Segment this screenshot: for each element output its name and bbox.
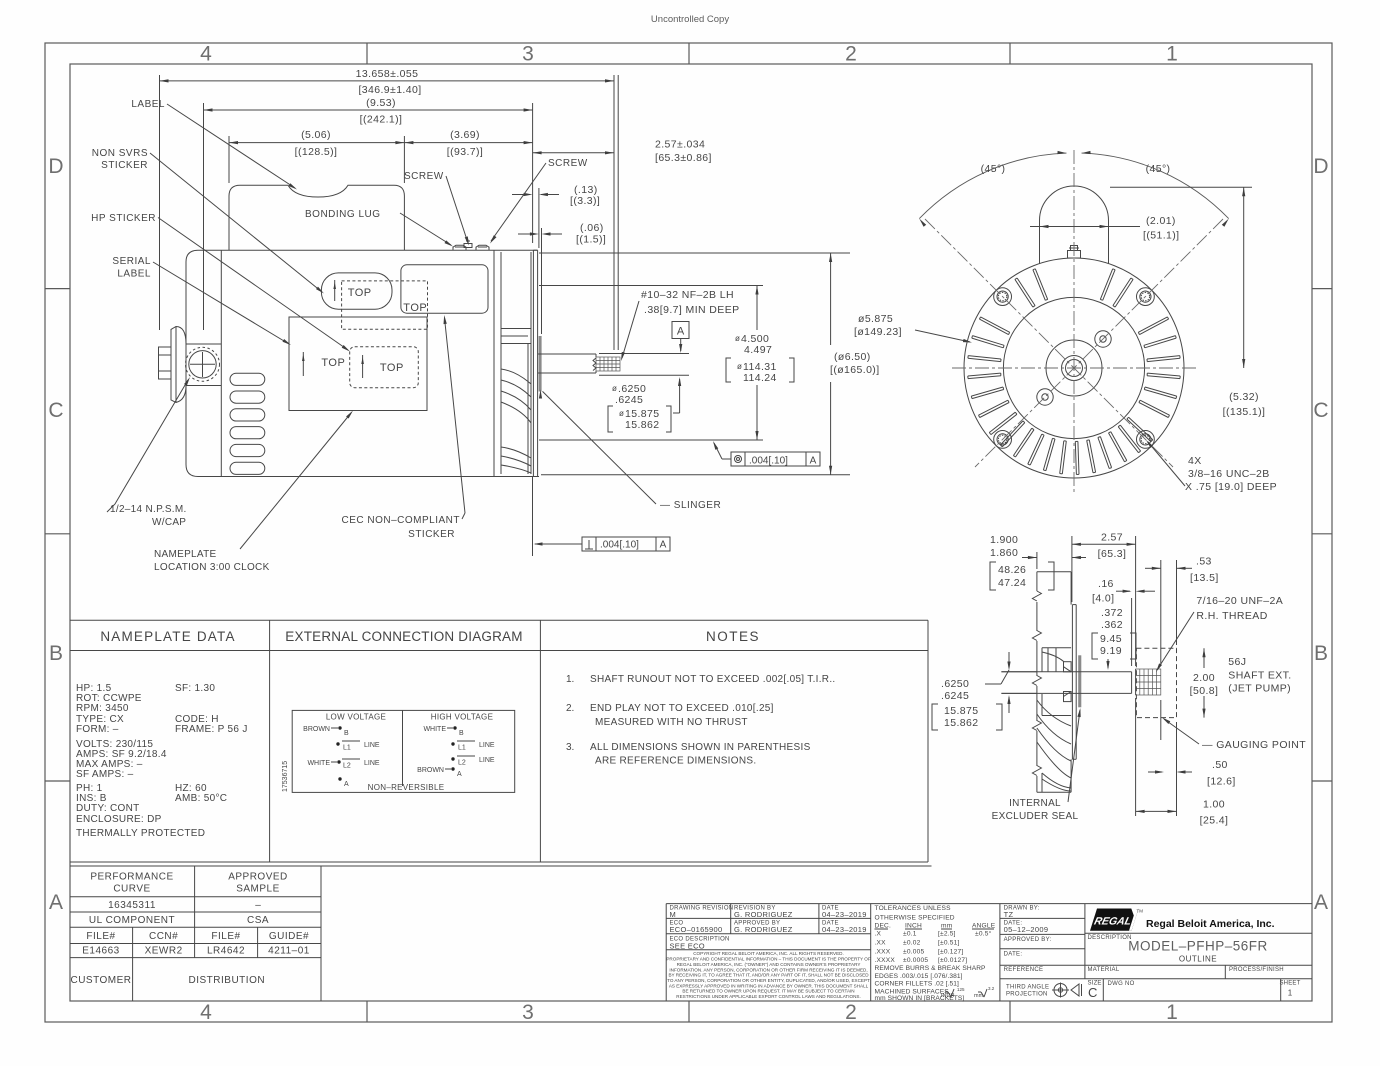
svg-text:1.: 1. xyxy=(566,674,574,685)
svg-text:3: 3 xyxy=(522,43,534,66)
svg-text:(ø6.50): (ø6.50) xyxy=(834,351,871,363)
svg-text:2: 2 xyxy=(845,1001,857,1024)
svg-text:[±0.51]: [±0.51] xyxy=(938,940,960,947)
svg-text:UL COMPONENT: UL COMPONENT xyxy=(89,915,175,926)
svg-text:L2: L2 xyxy=(343,763,351,770)
svg-text:BROWN: BROWN xyxy=(417,767,444,774)
svg-text:C: C xyxy=(1088,985,1097,1000)
svg-text:COPYRIGHT REGAL BELOIT AMERICA: COPYRIGHT REGAL BELOIT AMERICA, INC. ALL… xyxy=(693,951,844,956)
svg-text:ø5.875: ø5.875 xyxy=(858,313,893,325)
svg-text:.XX: .XX xyxy=(875,940,887,947)
svg-text:E14663: E14663 xyxy=(82,946,119,957)
svg-text:FORM: –: FORM: – xyxy=(76,724,119,735)
svg-text:(.06): (.06) xyxy=(580,222,604,234)
svg-text:9.19: 9.19 xyxy=(1100,645,1122,657)
svg-text:DISTRIBUTION: DISTRIBUTION xyxy=(189,975,266,986)
svg-text:ø: ø xyxy=(612,384,617,393)
svg-text:D: D xyxy=(1313,155,1328,178)
svg-text:LINE: LINE xyxy=(364,760,380,767)
svg-text:(45°): (45°) xyxy=(1146,163,1171,175)
svg-text:(45°): (45°) xyxy=(981,163,1006,175)
svg-text:LABEL: LABEL xyxy=(131,99,165,110)
svg-text:.6245: .6245 xyxy=(615,394,643,406)
svg-text:[±0.127]: [±0.127] xyxy=(938,949,963,956)
svg-text:PERFORMANCE: PERFORMANCE xyxy=(90,872,173,883)
svg-text:CUSTOMER: CUSTOMER xyxy=(70,975,131,986)
svg-text:END PLAY NOT TO EXCEED .0: END PLAY NOT TO EXCEED .010[.25] xyxy=(590,703,774,714)
svg-text:G. RODRIGUEZ: G. RODRIGUEZ xyxy=(734,910,793,919)
svg-text:.XXXX: .XXXX xyxy=(875,957,896,964)
svg-text:WHITE: WHITE xyxy=(423,726,446,733)
svg-text:DEC.: DEC. xyxy=(875,923,892,930)
svg-text:(3.69): (3.69) xyxy=(450,129,480,141)
svg-text:SF AMPS: –: SF AMPS: – xyxy=(76,769,134,780)
svg-text:2.57±.034: 2.57±.034 xyxy=(655,139,705,151)
svg-text:AMB: 50°C: AMB: 50°C xyxy=(175,793,227,804)
svg-text:(2.01): (2.01) xyxy=(1146,215,1176,227)
svg-text:1: 1 xyxy=(1166,1001,1178,1024)
svg-text:LOCATION 3:00 CLOCK: LOCATION 3:00 CLOCK xyxy=(154,562,270,573)
svg-text:CORNER FILLETS .02 [.51]: CORNER FILLETS .02 [.51] xyxy=(875,981,960,988)
svg-text:CURVE: CURVE xyxy=(113,884,150,895)
svg-text:MATERIAL: MATERIAL xyxy=(1088,967,1120,973)
svg-text:mm: mm xyxy=(941,923,953,930)
svg-text:[±2.5]: [±2.5] xyxy=(938,931,956,938)
svg-text:±0.005: ±0.005 xyxy=(903,949,924,956)
svg-text:X .75 [19.0] DEEP: X .75 [19.0] DEEP xyxy=(1185,481,1277,493)
svg-text:TO ANY PERSON, CORPORATION OR: TO ANY PERSON, CORPORATION OR OTHER ENTI… xyxy=(667,978,870,983)
svg-text:TOP: TOP xyxy=(380,362,404,374)
svg-text:.362: .362 xyxy=(1101,619,1123,631)
svg-text:[±0.0127]: [±0.0127] xyxy=(938,957,967,964)
svg-text:SF: 1.30: SF: 1.30 xyxy=(175,683,215,694)
svg-text:FRAME: P 56 J: FRAME: P 56 J xyxy=(175,724,248,735)
svg-text:SCREW: SCREW xyxy=(548,158,588,169)
svg-text:ø: ø xyxy=(737,362,742,371)
svg-text:ENCLOSURE: DP: ENCLOSURE: DP xyxy=(76,814,162,825)
svg-text:ø: ø xyxy=(735,334,740,343)
svg-text:1: 1 xyxy=(1288,989,1293,998)
svg-text:[(51.1)]: [(51.1)] xyxy=(1143,230,1179,242)
svg-text:REGAL BELOIT AMERICA, INC. (“O: REGAL BELOIT AMERICA, INC. (“OWNER”) AND… xyxy=(677,962,861,967)
svg-text:2.57: 2.57 xyxy=(1101,532,1123,544)
svg-text:INTERNAL: INTERNAL xyxy=(1009,798,1061,809)
svg-text:15.862: 15.862 xyxy=(625,419,660,431)
svg-text:3/8–16 UNC–2B: 3/8–16 UNC–2B xyxy=(1188,468,1270,480)
svg-text:AS EXPRESSLY APPROVED IN WRITI: AS EXPRESSLY APPROVED IN WRITING IN ADVA… xyxy=(669,983,869,988)
svg-text:TM: TM xyxy=(1137,909,1144,914)
svg-text:STICKER: STICKER xyxy=(408,529,455,540)
svg-text:TOP: TOP xyxy=(321,357,345,369)
svg-text:4211–01: 4211–01 xyxy=(268,946,310,957)
svg-text:Regal Beloit America, Inc.: Regal Beloit America, Inc. xyxy=(1146,918,1275,930)
svg-text:LOW VOLTAGE: LOW VOLTAGE xyxy=(326,713,386,722)
svg-text:ECO–0165900: ECO–0165900 xyxy=(670,925,723,934)
svg-text:[4.0]: [4.0] xyxy=(1092,593,1114,605)
svg-text:A: A xyxy=(810,456,817,467)
svg-text:.38[9.7] MIN DEEP: .38[9.7] MIN DEEP xyxy=(644,304,740,316)
svg-text:DESCRIPTION: DESCRIPTION xyxy=(1088,935,1132,941)
svg-text:2.: 2. xyxy=(566,703,574,714)
svg-text:mm SHOWN IN [BRACKETS]: mm SHOWN IN [BRACKETS] xyxy=(875,995,965,1002)
svg-text:LR4642: LR4642 xyxy=(207,946,245,957)
svg-text:A: A xyxy=(457,771,462,778)
svg-text:2: 2 xyxy=(845,43,857,66)
svg-text:— GAUGING POINT: — GAUGING POINT xyxy=(1202,739,1306,751)
svg-text:.53: .53 xyxy=(1196,556,1212,568)
svg-text:.XXX: .XXX xyxy=(875,949,891,956)
svg-text:.004[.10]: .004[.10] xyxy=(749,456,788,467)
svg-text:[ø149.23]: [ø149.23] xyxy=(854,326,902,338)
svg-text:[(93.7)]: [(93.7)] xyxy=(447,146,483,158)
svg-text:[13.5]: [13.5] xyxy=(1190,572,1219,584)
svg-text:56J: 56J xyxy=(1228,656,1246,668)
svg-text:L1: L1 xyxy=(458,745,466,752)
svg-text:2.00: 2.00 xyxy=(1193,672,1215,684)
svg-text:15.862: 15.862 xyxy=(944,717,979,729)
svg-text:D: D xyxy=(48,155,63,178)
svg-text:BONDING LUG: BONDING LUG xyxy=(305,209,381,220)
svg-text:CEC NON–COMPLIANT: CEC NON–COMPLIANT xyxy=(341,515,460,526)
svg-text:±0.5°: ±0.5° xyxy=(975,930,992,938)
svg-text:ARE REFERENCE DIMENSIONS.: ARE REFERENCE DIMENSIONS. xyxy=(595,756,756,767)
svg-text:FILE#: FILE# xyxy=(211,931,240,942)
svg-text:[(3.3)]: [(3.3)] xyxy=(570,195,600,207)
svg-text:C: C xyxy=(48,399,63,422)
svg-text:APPROVED: APPROVED xyxy=(228,872,288,883)
svg-text:[65.3]: [65.3] xyxy=(1098,548,1127,560)
svg-text:SAMPLE: SAMPLE xyxy=(236,884,280,895)
svg-text:NON SVRS: NON SVRS xyxy=(92,148,148,159)
svg-text:B: B xyxy=(459,730,464,737)
svg-text:(5.06): (5.06) xyxy=(301,129,331,141)
svg-text:A: A xyxy=(677,326,685,338)
svg-text:±0.0005: ±0.0005 xyxy=(903,957,928,964)
svg-text:7/16–20 UNF–2A: 7/16–20 UNF–2A xyxy=(1196,595,1283,607)
svg-text:SHAFT EXT.: SHAFT EXT. xyxy=(1228,670,1291,682)
svg-text:3.: 3. xyxy=(566,742,574,753)
svg-text:[25.4]: [25.4] xyxy=(1200,815,1229,827)
svg-text:SHAFT RUNOUT NOT TO EXCEED: SHAFT RUNOUT NOT TO EXCEED .002[.05] T.I… xyxy=(590,674,836,685)
svg-text:PROCESS/FINISH: PROCESS/FINISH xyxy=(1229,967,1284,973)
svg-text:ANGLE: ANGLE xyxy=(972,923,996,930)
svg-text:ø: ø xyxy=(619,409,624,418)
svg-text:STICKER: STICKER xyxy=(101,160,148,171)
svg-text:WHITE: WHITE xyxy=(307,760,330,767)
svg-text:[346.9±1.40]: [346.9±1.40] xyxy=(358,84,421,96)
svg-text:[(242.1)]: [(242.1)] xyxy=(360,114,403,126)
svg-text:4.497: 4.497 xyxy=(744,344,772,356)
svg-text:1.900: 1.900 xyxy=(990,534,1018,546)
svg-text:(9.53): (9.53) xyxy=(366,97,396,109)
svg-text:EXCLUDER SEAL: EXCLUDER SEAL xyxy=(992,811,1079,822)
svg-text:[12.6]: [12.6] xyxy=(1207,776,1236,788)
svg-text:A: A xyxy=(344,781,349,788)
svg-text:MODEL–PFHP–56FR: MODEL–PFHP–56FR xyxy=(1128,939,1268,954)
svg-text:[50.8]: [50.8] xyxy=(1190,685,1219,697)
svg-text:114.24: 114.24 xyxy=(743,372,777,384)
svg-text:3: 3 xyxy=(522,1001,534,1024)
svg-text:.6250: .6250 xyxy=(941,678,969,690)
svg-text:TOP: TOP xyxy=(348,287,372,299)
svg-text:BY RECEIVING IT, TO AGREE THAT: BY RECEIVING IT, TO AGREE THAT IT, AND/O… xyxy=(668,973,869,978)
svg-text:04–23–2019: 04–23–2019 xyxy=(822,910,867,919)
svg-text:W/CAP: W/CAP xyxy=(152,517,186,528)
svg-text:47.24: 47.24 xyxy=(998,577,1026,589)
svg-text:B: B xyxy=(49,642,63,665)
svg-text:LINE: LINE xyxy=(479,757,495,764)
svg-text:BROWN: BROWN xyxy=(303,726,330,733)
svg-text:1.00: 1.00 xyxy=(1203,799,1225,811)
svg-text:13.658±.055: 13.658±.055 xyxy=(356,68,419,80)
svg-text:.50: .50 xyxy=(1212,759,1228,771)
svg-text:[(135.1)]: [(135.1)] xyxy=(1223,406,1266,418)
svg-text:(5.32): (5.32) xyxy=(1229,391,1259,403)
svg-text:DRAWING REVISION: DRAWING REVISION xyxy=(670,906,734,912)
svg-text:.6245: .6245 xyxy=(941,690,969,702)
svg-text:17536715: 17536715 xyxy=(282,761,289,792)
svg-text:LINE: LINE xyxy=(479,742,495,749)
svg-text:BE RETURNED TO OWNER UPON REQU: BE RETURNED TO OWNER UPON REQUEST. IT MA… xyxy=(682,989,854,994)
svg-text:CCN#: CCN# xyxy=(149,931,178,942)
svg-text:HP STICKER: HP STICKER xyxy=(91,213,156,224)
svg-text:TOP: TOP xyxy=(403,302,427,314)
svg-text:— SLINGER: — SLINGER xyxy=(660,500,721,511)
svg-text:.004[.10]: .004[.10] xyxy=(600,540,639,551)
svg-text:B: B xyxy=(1314,642,1328,665)
svg-text:[(1.5)]: [(1.5)] xyxy=(576,234,606,246)
svg-text:[65.3±0.86]: [65.3±0.86] xyxy=(655,152,712,164)
svg-text:DATE:: DATE: xyxy=(1004,952,1023,958)
svg-text:125: 125 xyxy=(957,987,965,992)
svg-text:LABEL: LABEL xyxy=(117,269,151,280)
svg-text:.372: .372 xyxy=(1101,607,1123,619)
svg-text:SCREW: SCREW xyxy=(404,171,444,182)
svg-text:FILE#: FILE# xyxy=(86,931,115,942)
svg-text:XEWR2: XEWR2 xyxy=(145,946,183,957)
svg-text:RPM: 3450: RPM: 3450 xyxy=(76,703,129,714)
svg-text:LINE: LINE xyxy=(364,742,380,749)
svg-text:C: C xyxy=(1313,399,1328,422)
svg-text:1.860: 1.860 xyxy=(990,547,1018,559)
svg-text:9.45: 9.45 xyxy=(1100,633,1122,645)
svg-text:.16: .16 xyxy=(1098,578,1114,590)
svg-text:A: A xyxy=(49,891,63,914)
svg-text:EXTERNAL CONNECTION DIAGRAM: EXTERNAL CONNECTION DIAGRAM xyxy=(285,629,522,644)
svg-text:INFORMATION. ANY PERSON, CORPO: INFORMATION. ANY PERSON, CORPORATION OR … xyxy=(669,967,867,972)
svg-text:A: A xyxy=(660,540,667,551)
svg-text:4: 4 xyxy=(200,1001,212,1024)
svg-text:±0.1: ±0.1 xyxy=(903,931,917,938)
svg-text:REFERENCE: REFERENCE xyxy=(1004,967,1044,973)
svg-text:±0.02: ±0.02 xyxy=(903,940,921,947)
svg-text:RESTRICTIONS UNDER APPLICABLE: RESTRICTIONS UNDER APPLICABLE EXPORT CON… xyxy=(676,994,860,999)
svg-text:INCH: INCH xyxy=(905,923,922,930)
svg-text:(JET PUMP): (JET PUMP) xyxy=(1228,683,1291,695)
svg-text:TOLERANCES UNLESS: TOLERANCES UNLESS xyxy=(875,905,952,912)
svg-text:.X: .X xyxy=(875,931,882,938)
svg-text:DUTY: CONT: DUTY: CONT xyxy=(76,803,140,814)
svg-text:MEASURED WITH NO THRUST: MEASURED WITH NO THRUST xyxy=(595,717,748,728)
svg-text:THIRD ANGLE: THIRD ANGLE xyxy=(1006,985,1049,991)
svg-text:R.H. THREAD: R.H. THREAD xyxy=(1196,610,1267,622)
svg-text:#10–32 NF–2B LH: #10–32 NF–2B LH xyxy=(641,289,734,301)
svg-text:M: M xyxy=(670,910,677,919)
svg-text:TZ: TZ xyxy=(1004,910,1014,919)
svg-text:GUIDE#: GUIDE# xyxy=(269,931,309,942)
svg-text:OUTLINE: OUTLINE xyxy=(1179,955,1217,964)
svg-text:1: 1 xyxy=(1166,43,1178,66)
svg-text:REMOVE BURRS & BREAK SHARP: REMOVE BURRS & BREAK SHARP xyxy=(875,965,987,972)
svg-text:4: 4 xyxy=(200,43,212,66)
svg-text:05–12–2009: 05–12–2009 xyxy=(1004,925,1049,934)
svg-text:HIGH VOLTAGE: HIGH VOLTAGE xyxy=(431,713,493,722)
svg-text:1/2–14 N.P.S.M.: 1/2–14 N.P.S.M. xyxy=(110,504,187,515)
svg-text:PROJECTION: PROJECTION xyxy=(1006,992,1048,998)
svg-text:NON–REVERSIBLE: NON–REVERSIBLE xyxy=(368,783,445,792)
svg-text:APPROVED BY:: APPROVED BY: xyxy=(1004,937,1052,943)
svg-text:–: – xyxy=(255,900,261,911)
svg-text:OTHERWISE SPECIFIED: OTHERWISE SPECIFIED xyxy=(875,915,955,922)
svg-text:NAMEPLATE DATA: NAMEPLATE DATA xyxy=(100,629,235,644)
svg-text:CSA: CSA xyxy=(247,915,269,926)
svg-text:15.875: 15.875 xyxy=(944,705,979,717)
svg-text:THERMALLY PROTECTED: THERMALLY PROTECTED xyxy=(76,828,205,839)
svg-text:A: A xyxy=(1314,891,1328,914)
svg-text:[(ø165.0)]: [(ø165.0)] xyxy=(830,364,880,376)
svg-text:16345311: 16345311 xyxy=(108,900,156,911)
svg-text:[(128.5)]: [(128.5)] xyxy=(295,146,338,158)
svg-text:L1: L1 xyxy=(343,745,351,752)
svg-text:DWG NO: DWG NO xyxy=(1108,981,1135,987)
svg-text:48.26: 48.26 xyxy=(998,564,1026,576)
svg-text:B: B xyxy=(344,730,349,737)
svg-text:04–23–2019: 04–23–2019 xyxy=(822,925,867,934)
svg-text:REGAL: REGAL xyxy=(1093,916,1133,928)
svg-text:SEE ECO: SEE ECO xyxy=(670,942,705,951)
svg-text:4X: 4X xyxy=(1188,455,1202,467)
svg-text:NOTES: NOTES xyxy=(706,629,760,644)
svg-text:EDGES .003/.015 [.076/.381]: EDGES .003/.015 [.076/.381] xyxy=(875,973,963,980)
svg-text:Uncontrolled Copy: Uncontrolled Copy xyxy=(651,14,729,25)
svg-text:3.2: 3.2 xyxy=(988,986,995,991)
svg-text:PROPRIETARY AND CONFIDENTIAL I: PROPRIETARY AND CONFIDENTIAL INFORMATION… xyxy=(666,957,870,962)
svg-text:G. RODRIGUEZ: G. RODRIGUEZ xyxy=(734,925,793,934)
svg-text:ALL DIMENSIONS SHOWN IN PA: ALL DIMENSIONS SHOWN IN PARENTHESIS xyxy=(590,742,811,753)
svg-text:SERIAL: SERIAL xyxy=(112,256,151,267)
svg-text:SHEET: SHEET xyxy=(1279,981,1300,987)
svg-text:L2: L2 xyxy=(458,760,466,767)
svg-text:NAMEPLATE: NAMEPLATE xyxy=(154,549,217,560)
